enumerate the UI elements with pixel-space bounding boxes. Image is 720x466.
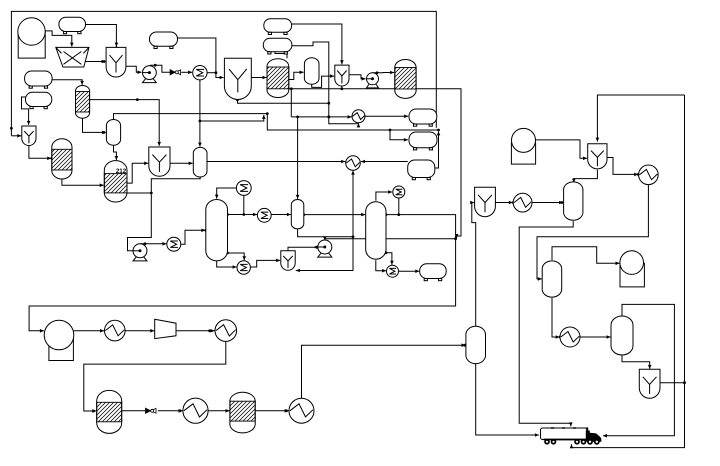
wire W2 bottom to E5 riser <box>236 99 329 104</box>
packed column C8 <box>97 390 122 433</box>
wire GH1 to crusher CR1 <box>45 31 73 47</box>
wire E13 top to vessel D6 <box>302 343 467 398</box>
valve V2 <box>146 408 157 413</box>
vessel D3 <box>193 147 207 177</box>
washer W9 <box>281 251 295 271</box>
wire E8 bottom to vessel D7 <box>537 185 648 281</box>
pump P4 <box>318 240 332 257</box>
wire main riser into D4 top <box>296 117 300 199</box>
wire C10 top to washer W5 top <box>90 98 161 146</box>
wire V2 to exchanger E12 <box>158 409 183 413</box>
heater E2 <box>167 237 181 251</box>
wire E3 bottom drop <box>243 195 245 214</box>
wire recycle riser down to truck bottom <box>570 95 685 448</box>
wire C1 to vessel D1 <box>289 71 304 80</box>
heater E4 <box>257 208 271 222</box>
wire C9 to exchanger E13 <box>255 409 288 413</box>
wire D4 bottom to E6 drop line <box>298 229 355 238</box>
wire D5 bottom long drop to truck top <box>519 221 573 426</box>
packed column C4 <box>104 161 127 202</box>
compressor K1 <box>155 319 176 338</box>
wire V1 to heater E1 <box>181 71 192 75</box>
vessel D5 <box>564 182 583 220</box>
packed column C1 <box>267 59 289 98</box>
exchanger E8 <box>639 165 659 185</box>
exchanger E6 <box>346 156 361 171</box>
heater E3 <box>236 181 251 196</box>
vessel D2 <box>106 120 120 146</box>
wire W6 bottom to vessel D5 top <box>572 170 597 183</box>
exchanger E11 <box>215 320 237 342</box>
wire T3 to washer W3 top <box>292 24 344 64</box>
wire E3 to column C5 top <box>215 188 237 199</box>
wire D6 bottom to truck left <box>476 364 539 437</box>
wire D3 right to exchanger E6 <box>207 160 345 164</box>
tank T8 <box>420 264 447 281</box>
gas holder GH1 <box>18 18 45 58</box>
gas holder GH4 <box>620 251 645 287</box>
wire E9 to vessel D5 <box>532 201 563 205</box>
washer W3 <box>335 65 349 86</box>
wire E12 to column C9 <box>208 409 229 413</box>
wire P1 discharge to valve V1 <box>150 64 170 73</box>
svg-text:212: 212 <box>116 168 127 175</box>
wire E1 down to vessel D3 <box>198 80 202 147</box>
crusher CR1 <box>56 47 89 67</box>
washer W8 <box>639 369 660 398</box>
wire branch into tank T6 <box>390 130 408 142</box>
wire C7 top to heater E7 <box>376 190 392 201</box>
wire W3 to pump P2 <box>349 75 366 81</box>
wire T9a down to column C10 <box>52 80 84 85</box>
wire C4 right to washer W5 <box>127 162 148 184</box>
wire E1 join to T2 line <box>207 72 216 74</box>
tank T7 <box>408 160 435 180</box>
wire E7 down to C7 line <box>398 198 400 215</box>
wire D3 bottom to pump P3 <box>128 177 201 253</box>
gas holder GH2 <box>511 128 535 164</box>
column C5 <box>206 199 228 260</box>
arrow into pump P4 top <box>323 236 327 240</box>
wire E5 to tank T5 <box>365 115 408 119</box>
tank T4 <box>263 38 292 54</box>
wire T9b to washer W4 top <box>22 97 31 125</box>
exchanger E5 <box>352 110 365 123</box>
wire T4 bottom into column C1 top <box>275 52 287 59</box>
exchanger E9 <box>513 193 532 212</box>
heater E7 <box>393 186 405 198</box>
washer W2 <box>224 58 251 99</box>
exchanger E14 <box>560 327 580 347</box>
wire W4 bottom to column C3 <box>29 146 53 161</box>
wire C5 bottom to heater E16 <box>217 261 237 269</box>
wire drop from C1 line to E5 feed line <box>290 89 292 117</box>
wire W8 right to recycle riser <box>660 381 686 384</box>
tank T6 <box>409 132 437 150</box>
tank T1 <box>59 17 86 34</box>
wire stub into washer W4 left <box>11 134 21 138</box>
wire E14 to vessel D8 <box>580 335 611 339</box>
wire C5 right to heater E16 top <box>226 252 246 261</box>
wire pump P4 discharge loop to gas holder GH3 <box>29 239 456 333</box>
heater E1 <box>193 66 207 80</box>
wire D6 top riser to washer W7 <box>470 201 476 327</box>
wire column C2 right down to pump line <box>416 89 461 238</box>
wire K1 to exchanger E11 <box>176 329 215 333</box>
washer W7 <box>475 187 496 217</box>
truck tank trailer <box>541 428 588 440</box>
wire C5 right to heater E4 <box>226 213 257 217</box>
wire GH3 to exchanger E10 <box>74 329 104 333</box>
wire W1 to pump P1 <box>126 66 142 74</box>
exchanger E10 <box>105 320 126 341</box>
washer W1 <box>106 47 126 77</box>
wire D7 bottom to exchanger E14 <box>552 298 561 339</box>
packed column C9 <box>230 392 255 433</box>
wire D8 top loop to truck right <box>603 304 674 437</box>
tank T9a <box>25 71 52 88</box>
washer W4 <box>22 126 36 146</box>
wire W6 to exchanger E8 <box>607 158 640 177</box>
exchanger E13 <box>289 398 314 423</box>
wire GH2 to washer W6 <box>536 140 587 160</box>
exchanger E12 <box>183 398 208 423</box>
wire E11 bottom loop to column C8 <box>84 341 226 412</box>
arrow up into exchanger E6 bottom <box>351 171 355 175</box>
truck trailer wheels <box>544 439 586 445</box>
wire D1 bottom to washer W3 <box>312 74 334 87</box>
wire top border from W4 up and across to right drop <box>10 11 436 135</box>
truck cab <box>586 427 602 444</box>
wire T1 to washer W1 top <box>86 25 119 50</box>
pump P2 <box>367 73 379 88</box>
wire crusher CR1 to washer W1 <box>85 60 106 64</box>
tank T2 <box>150 32 178 49</box>
tank T9b <box>26 92 52 108</box>
arrow into pump P4 suction <box>313 245 317 249</box>
washer W6 <box>588 144 607 169</box>
wire T7 to exchanger E6 right <box>361 160 408 164</box>
wire D2 bottom to column C4 top <box>114 145 119 160</box>
wire E4 to vessel D4 <box>271 213 291 217</box>
wire E16 to washer W9 <box>250 259 280 267</box>
wire C1 lower right across to column C2 <box>289 87 395 90</box>
packed column C10 <box>76 85 90 118</box>
washer W5 <box>149 147 170 176</box>
wire recycle top to washer W6 <box>596 95 685 142</box>
wire E15 to tank T8 <box>399 269 420 273</box>
wire P2 discharge to column C2 <box>373 71 395 75</box>
wire P3 discharge to heater E2 <box>140 242 166 246</box>
wire E2 to column C5 <box>181 229 207 245</box>
wire C7 right to corner junction <box>385 213 457 240</box>
wire E6 bottom drop to washer W9 <box>296 171 353 273</box>
wire W5 to vessel D3 <box>170 162 193 166</box>
heater E15 <box>387 265 399 277</box>
wire W7 to exchanger E9 <box>495 201 514 205</box>
wire D4 right to column C7 <box>302 213 365 217</box>
gas holder GH3 <box>44 320 74 360</box>
heater E16 <box>237 261 250 274</box>
valve V1 <box>170 70 181 75</box>
column C7 <box>366 202 386 260</box>
vessel D8 <box>611 316 633 355</box>
wire T7 riser up to L1 <box>435 131 441 168</box>
pump P3 <box>133 244 147 261</box>
wire T4 down to exchanger E5 bottom <box>292 42 360 127</box>
wire C10 bottom to vessel D2 <box>83 118 106 134</box>
wire into exchanger E5 left <box>291 115 351 119</box>
wire D8 bottom to washer W8 top <box>622 355 652 369</box>
tank T3 <box>264 19 292 35</box>
pump P1 <box>143 66 157 83</box>
wire branch from E1-D3 line to L1 corner <box>200 115 266 121</box>
wire C8 to valve V2 <box>122 410 146 412</box>
wire T2 to washer W2 left <box>178 38 224 79</box>
wire C4 lower right join <box>127 192 153 195</box>
packed column C2 <box>395 59 416 98</box>
wire C7 right to heater E15 top <box>385 251 394 264</box>
tank T5 <box>409 109 437 126</box>
wire D7 top to gas holder GH4 <box>552 247 620 265</box>
wire C7 bottom to heater E15 <box>376 260 386 272</box>
wire W2 to column C1 <box>251 76 266 80</box>
vessel D7 <box>542 261 562 297</box>
vessel D4 <box>291 200 304 229</box>
wire washer W3 bottom stub <box>341 86 343 89</box>
packed column C3 <box>52 139 72 179</box>
wire C3 bottom to column C4 <box>62 179 104 187</box>
wire W9 top to pump P4 <box>288 247 317 251</box>
wire L1 from D2 top across to right <box>114 112 440 131</box>
vessel D6 <box>466 326 486 363</box>
vessel D1 <box>304 58 319 85</box>
wire E10 to compressor K1 <box>125 329 154 333</box>
